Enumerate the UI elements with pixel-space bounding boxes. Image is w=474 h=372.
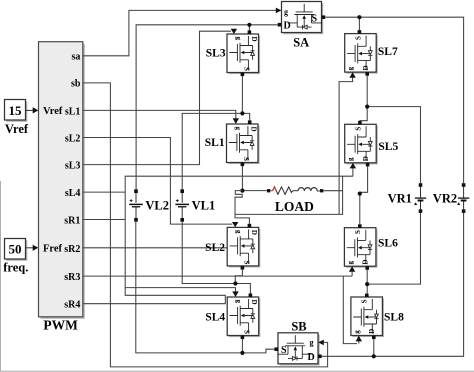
wire VL2 bottom neutral rail to SB source (136, 222, 274, 353)
svg-text:sR2: sR2 (64, 244, 80, 255)
node junction LOAD (240, 189, 244, 193)
mosfet SL8 (351, 297, 384, 337)
wire SL5 drain jog to SL6 source (360, 166, 368, 224)
svg-text:g: g (284, 8, 288, 17)
wire sR3 to SL6/SL8 gates (83, 272, 359, 344)
svg-text:g: g (234, 127, 242, 131)
node junction SL2.S (233, 281, 237, 285)
capacitor VL1 (175, 189, 189, 221)
svg-text:S: S (361, 299, 369, 303)
svg-text:SL2: SL2 (205, 242, 225, 254)
svg-text:g: g (235, 37, 243, 41)
wire sL1 to SL1 gate (83, 110, 236, 118)
svg-text:Vref: Vref (43, 106, 63, 117)
svg-text:sR3: sR3 (64, 272, 80, 283)
node junction SL6.D (365, 282, 369, 286)
source VR2 (457, 183, 469, 213)
wire SL8 drain drop (373, 339, 375, 356)
svg-text:S: S (354, 36, 362, 40)
svg-text:D: D (250, 230, 258, 235)
wire SB drain rail to VR2 bottom (322, 213, 464, 356)
wire sR4 bundle (83, 168, 353, 304)
wire 50 to PWM Fref (26, 247, 34, 249)
wire sL3 to SL3 gate (83, 31, 231, 164)
wire SL7 gate feed (339, 78, 353, 215)
svg-text:g: g (347, 157, 355, 161)
constant block 15 (Vref source) (6, 101, 27, 122)
svg-text:VR2: VR2 (433, 192, 457, 206)
svg-text:sL3: sL3 (65, 160, 81, 171)
svg-text:S: S (243, 260, 251, 264)
wire SL7 source drop (358, 17, 360, 30)
svg-text:D: D (284, 21, 291, 32)
mosfet SA (282, 2, 324, 35)
node junction SL4.S (240, 351, 244, 355)
svg-text:S: S (243, 330, 251, 334)
wire VR1 bottom to SL6 drain and SL8 source (367, 213, 420, 294)
mosfet SL3 (227, 34, 260, 74)
node junction VL1 top (240, 111, 244, 115)
wire VL2 top to SA drain (136, 25, 278, 190)
svg-text:sL1: sL1 (65, 106, 81, 117)
node junction SL5.D (358, 192, 362, 196)
wire LOAD right lead (323, 190, 342, 192)
svg-text:S: S (243, 67, 251, 71)
svg-text:S: S (312, 14, 318, 25)
wire sb to SB gate (bottom rail) (83, 83, 328, 367)
PWM block (41, 44, 85, 319)
svg-text:SL5: SL5 (378, 141, 398, 153)
LOAD inductor L (298, 188, 320, 191)
wire SA source top rail to VR2 (325, 17, 463, 183)
wire 15 to PWM Vref (26, 109, 34, 111)
svg-text:50: 50 (9, 242, 22, 257)
capacitor VL2 (129, 189, 143, 221)
wire VL1 top node to SL1 drain (182, 76, 250, 189)
LOAD resistor R (270, 187, 298, 194)
wire SL4 source drop (241, 339, 243, 353)
svg-text:sL2: sL2 (65, 133, 81, 144)
svg-text:g: g (353, 330, 361, 334)
svg-text:freq.: freq. (3, 261, 28, 275)
svg-text:sR1: sR1 (64, 215, 80, 226)
svg-text:g: g (235, 230, 243, 234)
mosfet SL2 (227, 227, 260, 267)
svg-text:S: S (242, 157, 250, 161)
mosfet SL1 (227, 124, 260, 164)
svg-text:VL1: VL1 (192, 199, 216, 213)
svg-text:D: D (308, 352, 315, 363)
svg-text:sb: sb (71, 79, 81, 90)
wire sa to SA gate (83, 10, 276, 55)
svg-text:D: D (250, 299, 258, 304)
mosfet SL4 (227, 297, 260, 337)
svg-text:S: S (354, 127, 362, 131)
wire VL1 bottom to SL2.S node and SL4 drain (182, 222, 250, 294)
svg-text:SL7: SL7 (378, 46, 398, 58)
svg-text:LOAD: LOAD (275, 199, 314, 214)
node junction top rail (357, 15, 361, 19)
svg-text:VL2: VL2 (145, 199, 169, 213)
wire SL7 drain to VR1 top and SL5 source (360, 76, 421, 184)
svg-text:S: S (354, 230, 362, 234)
wire SL1 source to LOAD node (242, 166, 267, 191)
wire SL3 drain drop (248, 25, 250, 31)
node junction SB.D rail (372, 354, 376, 358)
screenshot border (1, 181, 474, 371)
svg-text:S: S (281, 345, 287, 356)
svg-text:SL3: SL3 (206, 48, 226, 60)
wire SL2 source jog (235, 270, 242, 284)
svg-text:SL1: SL1 (205, 137, 225, 149)
mosfet SL7 (345, 34, 378, 74)
svg-text:SL4: SL4 (205, 312, 225, 324)
svg-text:sa: sa (71, 52, 80, 63)
svg-text:D: D (362, 260, 370, 265)
svg-text:D: D (250, 36, 258, 41)
svg-text:Vref: Vref (5, 122, 29, 136)
svg-text:PWM: PWM (43, 318, 78, 333)
svg-text:VR1: VR1 (388, 192, 412, 206)
wire SL4 gate feed (125, 288, 235, 292)
svg-text:SA: SA (293, 36, 309, 50)
wire sL4 (83, 191, 125, 193)
svg-text:Fref: Fref (43, 244, 63, 255)
svg-text:SL6: SL6 (378, 238, 398, 250)
svg-text:SL8: SL8 (384, 312, 404, 324)
svg-text:g: g (346, 260, 354, 264)
svg-text:D: D (250, 126, 258, 131)
wire sL2 to SL2 gate (83, 138, 232, 225)
wire zigzag SL1.S to SL2.D (235, 191, 249, 224)
svg-text:sR4: sR4 (64, 300, 80, 311)
wire load bottom branch (235, 176, 343, 214)
wire sR2 to SL2 left (83, 247, 227, 249)
node junction SA.D/SL3.D (247, 23, 251, 27)
svg-text:D: D (362, 65, 370, 70)
svg-text:15: 15 (9, 103, 23, 118)
mosfet SB (277, 333, 319, 366)
wire sR1 (83, 219, 125, 221)
source VR1 (414, 183, 426, 213)
svg-text:D: D (368, 329, 376, 334)
constant block 50 (freq source) (6, 240, 27, 260)
mosfet SL5 (345, 124, 378, 164)
svg-text:sL4: sL4 (65, 188, 81, 199)
svg-text:g: g (347, 66, 355, 70)
mosfet SL6 (344, 228, 377, 268)
svg-text:g: g (235, 300, 243, 304)
svg-text:SB: SB (291, 320, 306, 334)
svg-text:D: D (362, 156, 370, 161)
svg-text:g: g (310, 338, 314, 347)
node junction SL7.D (365, 105, 369, 109)
